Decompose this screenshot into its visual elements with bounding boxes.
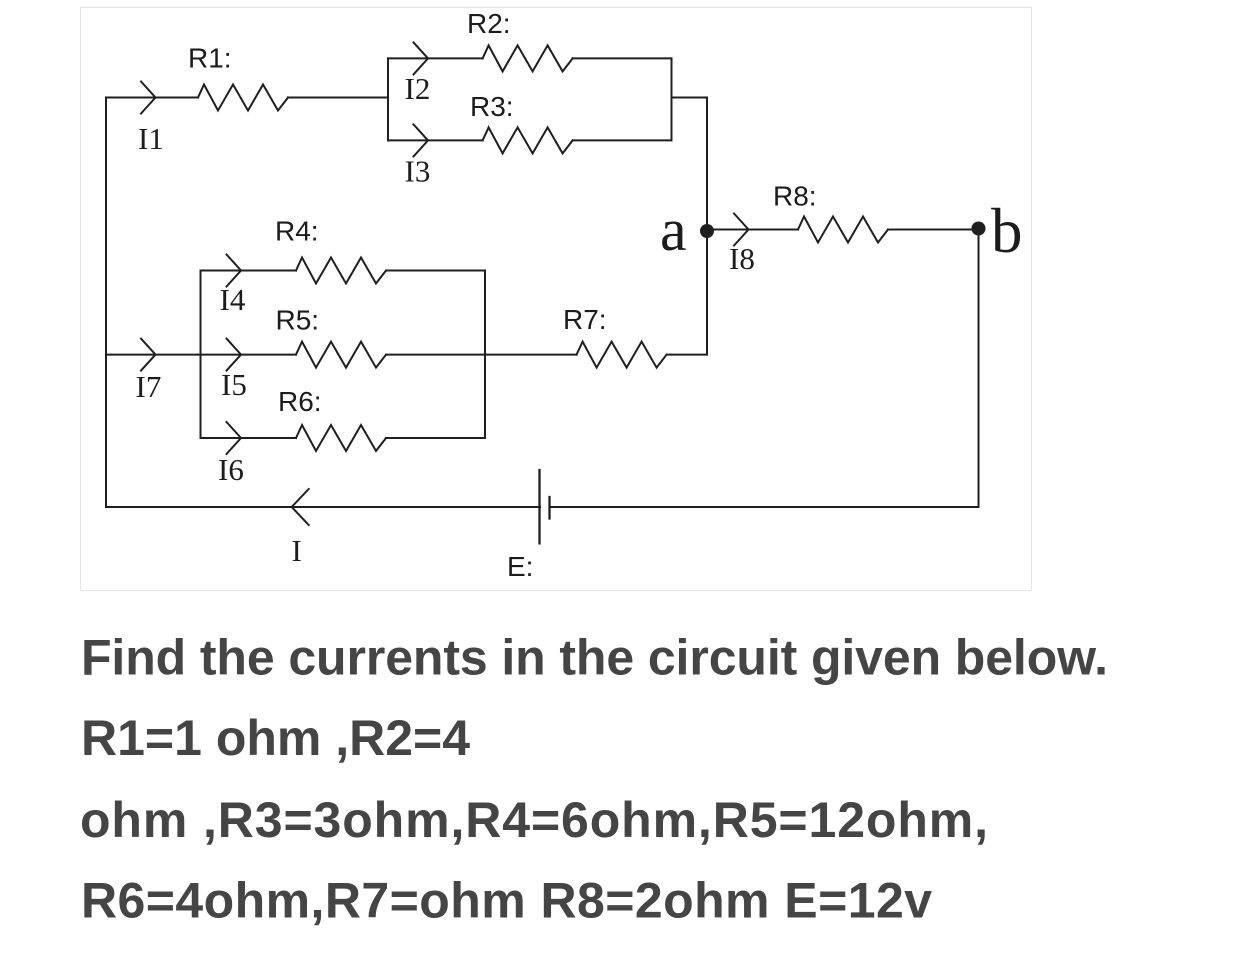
wire R456 box right edge <box>484 271 486 439</box>
caption line 3 <box>80 792 988 848</box>
svg-text:I: I <box>292 533 302 568</box>
resistor R3 <box>483 127 573 153</box>
label R1: <box>188 43 232 74</box>
node b <box>972 222 986 236</box>
resistor R6 <box>296 425 386 451</box>
label I1 <box>138 121 164 156</box>
label I6 <box>218 452 244 487</box>
wire R6 branch right <box>386 437 485 439</box>
label R2: <box>467 8 511 39</box>
wire right vertical down to R7 line <box>706 98 708 355</box>
wire middle left <box>106 354 201 356</box>
svg-text:a: a <box>660 197 687 263</box>
wire R1 to parallel box <box>288 97 388 99</box>
label I4 <box>220 282 246 317</box>
label I3 <box>405 154 431 189</box>
svg-text:ohm ,R3=3ohm,R4=6ohm,R5=12ohm,: ohm ,R3=3ohm,R4=6ohm,R5=12ohm, <box>80 792 988 848</box>
arrow I1 <box>141 82 156 114</box>
arrow I6 <box>227 422 242 454</box>
battery E long plate <box>538 470 540 543</box>
svg-text:b: b <box>991 196 1023 266</box>
svg-text:R1=1 ohm ,R2=4: R1=1 ohm ,R2=4 <box>81 710 470 766</box>
resistor R5 <box>296 342 386 368</box>
label R6: <box>278 386 322 417</box>
resistor R8 <box>798 217 888 243</box>
wire R8 to node b <box>888 229 979 231</box>
wire R5 branch left <box>201 354 297 356</box>
svg-text:I5: I5 <box>221 367 247 402</box>
svg-text:I7: I7 <box>136 369 162 404</box>
resistor R4 <box>296 258 386 284</box>
resistor R1 <box>198 85 288 111</box>
arrow I8 <box>734 214 749 246</box>
caption line 4 <box>81 873 932 929</box>
svg-text:R6:: R6: <box>278 386 322 417</box>
svg-text:Find the currents in the circu: Find the currents in the circuit given b… <box>81 629 1108 685</box>
svg-text:R7:: R7: <box>563 304 607 335</box>
arrow I5 <box>227 339 242 371</box>
wire R5 branch right <box>386 354 485 356</box>
wire R3 branch left <box>388 139 483 141</box>
arrow I7 <box>141 339 156 371</box>
wire R4 branch left <box>201 270 297 272</box>
image frame <box>81 8 1032 591</box>
label R4: <box>275 216 319 247</box>
wire R7 to right vertical <box>667 354 707 356</box>
wire R2 branch right <box>573 57 672 59</box>
arrow I4 <box>227 255 242 287</box>
wire node a to R8 <box>707 229 798 231</box>
label I8 <box>729 241 755 276</box>
wire R2R3 box right edge <box>671 58 673 140</box>
node label b <box>991 196 1023 266</box>
arrow I3 <box>414 124 429 156</box>
wire R456 box left edge <box>200 271 202 439</box>
resistor R2 <box>483 45 573 71</box>
svg-text:I8: I8 <box>729 241 755 276</box>
wire box to corner <box>672 97 708 99</box>
svg-text:R8:: R8: <box>773 181 817 212</box>
wire R3 branch right <box>573 139 672 141</box>
wire R4 branch right <box>386 270 485 272</box>
wire bottom right of battery <box>550 506 979 508</box>
wire left vertical <box>105 98 107 508</box>
svg-text:R2:: R2: <box>467 8 511 39</box>
label I2 <box>405 71 431 106</box>
arrow I2 <box>414 42 429 74</box>
wire top from left to R1 <box>106 97 198 99</box>
wire b vertical <box>978 230 980 508</box>
svg-text:R1:: R1: <box>188 43 232 74</box>
label R3: <box>470 91 514 122</box>
label R8: <box>773 181 817 212</box>
svg-text:I3: I3 <box>405 154 431 189</box>
wire R2R3 box left edge <box>387 58 389 140</box>
resistor R7 <box>577 342 667 368</box>
node a <box>700 224 714 238</box>
wire R6 branch left <box>201 437 297 439</box>
label I5 <box>221 367 247 402</box>
label R5: <box>276 304 320 335</box>
caption line 2 <box>81 710 470 766</box>
node label a <box>660 197 687 263</box>
label I7 <box>136 369 162 404</box>
label R7: <box>563 304 607 335</box>
label E: <box>507 551 533 582</box>
wire bottom left of battery <box>106 506 540 508</box>
caption line 1 <box>81 629 1108 685</box>
wire R2 branch left <box>388 57 483 59</box>
svg-text:R6=4ohm,R7=ohm R8=2ohm E=12v: R6=4ohm,R7=ohm R8=2ohm E=12v <box>81 873 932 929</box>
svg-text:I6: I6 <box>218 452 244 487</box>
arrow I bottom <box>292 489 309 525</box>
svg-text:E:: E: <box>507 551 533 582</box>
svg-text:R3:: R3: <box>470 91 514 122</box>
svg-text:I2: I2 <box>405 71 431 106</box>
svg-text:I4: I4 <box>220 282 246 317</box>
battery E short plate <box>548 497 550 519</box>
svg-text:R5:: R5: <box>276 304 320 335</box>
svg-text:R4:: R4: <box>275 216 319 247</box>
label I <box>292 533 302 568</box>
wire box to R7 <box>485 354 577 356</box>
svg-text:I1: I1 <box>138 121 164 156</box>
